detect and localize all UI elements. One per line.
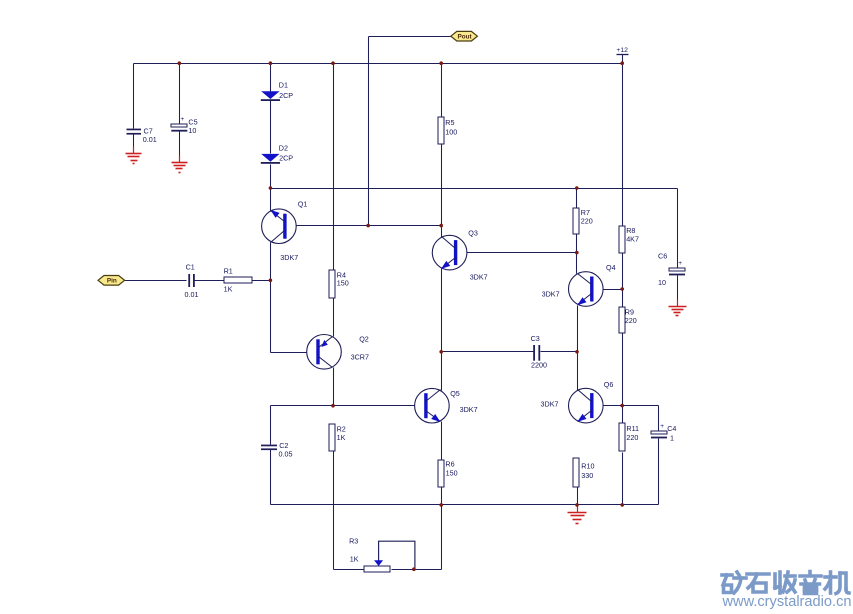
watermark char 石 (747, 574, 769, 592)
wire C2 bottom lead (270, 450, 272, 505)
wire +12 power rail (134, 63, 623, 65)
wire R5 to Q1 base node (441, 145, 443, 226)
svg-text:10: 10 (188, 126, 196, 135)
wire C4 top lead (658, 406, 660, 431)
junction node R2-Q2-Q5base (331, 404, 335, 408)
wire R3 left (334, 569, 365, 571)
diode D2 (261, 143, 293, 163)
svg-text:R3: R3 (349, 536, 358, 545)
svg-text:Q5: Q5 (450, 389, 460, 398)
wire Q6 base row (593, 405, 659, 407)
wire Pout link (369, 36, 451, 38)
wire C3 row right (541, 351, 578, 353)
wire bottom rail (271, 504, 659, 506)
watermark char 矿 (722, 572, 746, 593)
wire +12 col to R8 (622, 64, 624, 227)
svg-text:3DK7: 3DK7 (470, 272, 488, 281)
svg-text:220: 220 (626, 433, 638, 442)
svg-text:1K: 1K (350, 555, 359, 564)
wire C7 top lead (133, 64, 135, 129)
resistor R2 (329, 424, 346, 451)
junction node R10-rail (575, 503, 579, 507)
svg-text:Q1: Q1 (298, 200, 308, 209)
resistor R1 (224, 267, 252, 294)
svg-text:R10: R10 (581, 461, 594, 470)
ground (C5) (172, 156, 188, 173)
wire R10 bottom (577, 488, 579, 505)
svg-text:1K: 1K (224, 285, 233, 294)
wire R4 column top (333, 64, 335, 271)
svg-text:Pin: Pin (107, 278, 117, 285)
svg-text:150: 150 (446, 469, 458, 478)
svg-text:2CP: 2CP (279, 154, 293, 163)
svg-text:+: + (181, 116, 185, 123)
wire Q3 emitter down (441, 269, 443, 391)
watermark url (721, 594, 851, 610)
junction node R5-Q3-base (439, 224, 443, 228)
wire Q1 emitter down (270, 243, 272, 353)
svg-text:0.01: 0.01 (185, 290, 199, 299)
svg-text:100: 100 (445, 127, 457, 136)
junction node R4-col/rail (331, 61, 335, 65)
wire node to Q3 (441, 226, 443, 238)
svg-text:3DK7: 3DK7 (541, 399, 559, 408)
wire R6 to R3 corner (441, 488, 443, 570)
potentiometer R3 (349, 536, 390, 572)
svg-text:Q4: Q4 (606, 263, 616, 272)
wire R8 to Q4 base node (622, 254, 624, 308)
resistor R10 (573, 458, 594, 487)
resistor R6 (438, 460, 458, 487)
svg-text:Q6: Q6 (604, 380, 614, 389)
capacitor C4 (electrolytic) (651, 423, 676, 443)
power +12 (616, 47, 628, 64)
svg-text:C3: C3 (531, 334, 540, 343)
wire Q4 base (592, 289, 623, 291)
svg-text:2CP: 2CP (279, 91, 293, 100)
svg-text:3DK7: 3DK7 (542, 289, 560, 298)
transistor Q6 (3DK7) (541, 380, 614, 423)
watermark char 音 (800, 572, 821, 594)
junction node Q6 base (620, 404, 624, 408)
wire R11 bottom (622, 453, 624, 505)
wire C2 top lead (270, 406, 272, 445)
transistor Q3 (3DK7) (432, 228, 487, 281)
svg-text:Q3: Q3 (468, 228, 478, 237)
junction node C3 right (575, 350, 579, 354)
junction node Q4 base (620, 287, 624, 291)
capacitor C7 (127, 127, 157, 148)
junction node D1/rail (269, 61, 273, 65)
svg-text:D2: D2 (279, 143, 288, 152)
svg-text:C1: C1 (186, 262, 195, 271)
wire input to C1 (125, 280, 187, 282)
ground (C7) (126, 147, 142, 164)
wire Q5 emitter to R6 (441, 422, 443, 461)
junction node C5/rail (178, 61, 182, 65)
port Pout (451, 31, 478, 41)
wire C6 to ground (677, 276, 679, 300)
wire R7 top lead (576, 189, 578, 209)
resistor R5 (438, 117, 457, 144)
svg-text:+: + (678, 260, 682, 267)
svg-text:C6: C6 (658, 252, 667, 261)
watermark char 收 (775, 572, 795, 593)
resistor R7 (573, 208, 593, 234)
svg-text:220: 220 (625, 316, 637, 325)
resistor R9 (619, 307, 637, 333)
wire C3 row left (442, 351, 534, 353)
capacitor C3 (531, 334, 547, 369)
wire diode column top (270, 64, 272, 92)
watermark char 机 (825, 572, 849, 594)
wire Q2 to node (333, 368, 335, 406)
wire Q1 base row (285, 225, 442, 227)
wire node row y188 (271, 188, 678, 190)
junction node R11-rail (620, 503, 624, 507)
junction node Q3base-R7-Q4c (575, 251, 579, 255)
svg-text:10: 10 (658, 278, 666, 287)
wire Q2 base (271, 352, 319, 354)
diode D1 (261, 81, 293, 101)
capacitor C5 (electrolytic) (171, 116, 198, 157)
svg-text:+: + (660, 423, 664, 430)
svg-text:www.crystalradio.cn: www.crystalradio.cn (721, 594, 851, 610)
junction node +12/rail (620, 61, 624, 65)
transistor Q2 (3CR7) (307, 335, 369, 370)
ground (R10) (568, 506, 587, 524)
wire C5 top lead (179, 64, 181, 124)
wire C6 drop (677, 189, 679, 268)
junction node Pout-base (366, 224, 370, 228)
resistor R11 (619, 423, 639, 451)
junction node R7 top (575, 186, 579, 190)
capacitor C2 (261, 441, 293, 458)
junction node R5/rail (439, 61, 443, 65)
ground (C6) (669, 300, 687, 316)
junction node R6-rail (439, 503, 443, 507)
svg-text:3DK7: 3DK7 (280, 253, 298, 262)
wire R3 wiper loop (379, 541, 415, 569)
wire R9 to Q6 base node (622, 334, 624, 424)
svg-text:0.05: 0.05 (279, 449, 293, 458)
junction node D2-Q1 row (269, 186, 273, 190)
junction node R1-Q1e (269, 279, 273, 283)
svg-text:+12: +12 (616, 47, 628, 54)
wire R2 bottom to R3 (333, 452, 335, 570)
svg-text:D1: D1 (279, 81, 288, 90)
svg-text:3DK7: 3DK7 (460, 405, 478, 414)
svg-text:R6: R6 (445, 460, 454, 469)
wire R1 to node (253, 280, 271, 282)
svg-text:2200: 2200 (531, 361, 547, 370)
wire Q5 base row (271, 405, 428, 407)
capacitor C1 (185, 262, 199, 299)
svg-text:0.01: 0.01 (143, 135, 157, 144)
wire Q4 emitter down (577, 306, 579, 391)
wire D1-D2 link (270, 101, 272, 154)
svg-text:1: 1 (670, 434, 674, 443)
wire C4 bottom lead (658, 439, 660, 505)
junction node C3 left (439, 350, 443, 354)
transistor Q1 (3DK7) (262, 200, 308, 262)
svg-text:1K: 1K (337, 433, 346, 442)
svg-text:330: 330 (581, 471, 593, 480)
port Pin (98, 276, 125, 286)
wire R3 right (392, 569, 442, 571)
resistor R4 (329, 270, 349, 298)
svg-text:220: 220 (581, 216, 593, 225)
svg-text:Q2: Q2 (359, 335, 369, 344)
wire Q3 base row (457, 252, 577, 254)
capacitor C6 (electrolytic) (658, 252, 685, 288)
svg-text:R5: R5 (445, 118, 454, 127)
svg-text:3CR7: 3CR7 (351, 352, 369, 361)
junction node R3 wiper (412, 567, 416, 571)
svg-text:4K7: 4K7 (626, 234, 639, 243)
svg-text:Pout: Pout (457, 34, 472, 41)
resistor R8 (619, 226, 639, 253)
wire R7 to Q4 (576, 235, 578, 274)
transistor Q5 (3DK7) (415, 388, 478, 423)
wire R4 to Q2 (333, 299, 335, 337)
wire Pout drop (368, 37, 370, 226)
wire D2 to node (270, 165, 272, 211)
transistor Q4 (3DK7) (542, 263, 616, 306)
svg-text:150: 150 (337, 279, 349, 288)
wire R5 top (441, 64, 443, 118)
svg-text:C4: C4 (667, 424, 676, 433)
svg-text:R1: R1 (224, 267, 233, 276)
wire C1 to R1 (194, 280, 225, 282)
